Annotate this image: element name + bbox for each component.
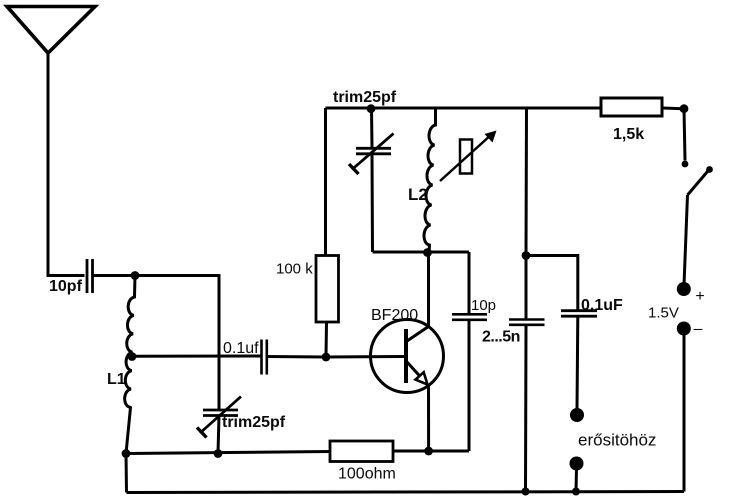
svg-text:0.1uF: 0.1uF: [581, 297, 623, 314]
wire 10p top lead: [468, 252, 471, 314]
inductor L2: [424, 108, 436, 253]
wire node A to trimmer branch: [135, 276, 219, 411]
transistor Q1 BF200 circle: [371, 320, 444, 393]
bottom-left junction: [122, 449, 131, 458]
output terminal 2: [570, 457, 584, 471]
node A junction: [131, 271, 140, 280]
wire output terminal 2 to rail: [575, 468, 579, 492]
antenna: [7, 7, 95, 54]
switch node dot: [680, 104, 689, 113]
emitter arrowhead: [416, 372, 428, 384]
switch lever: [688, 172, 708, 196]
svg-text:L1: L1: [107, 371, 126, 388]
transistor base bar: [404, 329, 408, 383]
wire lever to battery plus: [684, 195, 688, 285]
svg-text:–: –: [694, 321, 703, 338]
wire 0.1uf to base node: [267, 355, 326, 359]
wire bottom-left node down to ground rail: [125, 454, 129, 493]
L2 tuning arrow: [440, 131, 497, 182]
svg-text:trim25pf: trim25pf: [333, 89, 397, 106]
svg-text:10p: 10p: [471, 297, 496, 314]
inductor L1: [125, 276, 135, 454]
svg-text:0.1uf: 0.1uf: [223, 340, 259, 357]
wire emitter down: [427, 385, 430, 451]
wire 100k top to rail: [324, 108, 327, 256]
capacitor 0.1uF: [561, 311, 597, 317]
tank bottom wire: [373, 251, 470, 254]
wire 2...5n top lead: [525, 256, 528, 320]
wire 1,5k to switch node: [662, 107, 684, 111]
svg-text:erősitöhöz: erősitöhöz: [578, 431, 656, 450]
resistor 100ohm: [330, 441, 393, 462]
resistor 100k: [316, 256, 339, 323]
wire 100ohm to emitter node: [393, 450, 469, 453]
rail junction 2...5n: [522, 488, 530, 496]
trimmer bottom junction: [214, 449, 223, 458]
svg-text:1,5k: 1,5k: [613, 126, 644, 143]
junction x526: [522, 251, 531, 260]
battery plus terminal: [677, 282, 691, 296]
resistor 1,5k: [601, 98, 662, 116]
wire trimmer bottom lead: [218, 416, 219, 454]
wire 100k bottom to base node: [325, 322, 329, 357]
wire collector up to tank node: [427, 253, 430, 328]
wire 2...5n bottom lead to rail: [524, 325, 528, 492]
wire antenna down to 10pf: [48, 53, 85, 276]
wire L1 tap to 0.1uf: [132, 355, 261, 358]
rail junction trimmer top: [367, 104, 376, 113]
tank junction dot: [423, 248, 432, 257]
wire junction to 0.1uF branch: [526, 256, 578, 311]
top rail wire: [326, 107, 602, 110]
capacitor 10pf: [87, 259, 93, 293]
output terminal 1: [570, 408, 584, 422]
rail junction output: [572, 488, 580, 496]
svg-text:trim25pf: trim25pf: [222, 414, 286, 431]
trimmer capacitor trim25pf (bottom): [197, 397, 241, 438]
capacitor 2...5n: [509, 320, 545, 325]
wire 10p bottom lead: [468, 320, 471, 451]
wire bottom-left node to 100ohm: [126, 452, 330, 454]
svg-text:100ohm: 100ohm: [338, 466, 396, 483]
switch lever tip dot: [706, 166, 713, 173]
wire 0.1uF to output terminal: [576, 316, 580, 410]
transistor collector stroke: [407, 327, 429, 342]
svg-text:100 k: 100 k: [276, 261, 313, 278]
emitter junction: [424, 447, 433, 456]
svg-text:BF200: BF200: [371, 307, 418, 324]
svg-text:10pf: 10pf: [49, 278, 83, 295]
wire switch feed: [684, 109, 685, 161]
svg-text:L2: L2: [408, 185, 428, 204]
svg-text:2...5n: 2...5n: [482, 329, 520, 346]
battery minus terminal: [677, 322, 691, 336]
wire base node to transistor base: [326, 355, 404, 359]
ground rail: [127, 492, 685, 493]
svg-text:+: +: [695, 288, 704, 305]
svg-text:1.5V: 1.5V: [648, 305, 679, 322]
base node junction: [322, 353, 331, 362]
capacitor 10p: [452, 314, 487, 320]
wire battery minus to rail: [683, 333, 686, 492]
capacitor 0.1uf: [262, 340, 267, 375]
wire rail down at x526: [525, 108, 529, 256]
switch fixed contact: [682, 161, 689, 168]
wire 10pf to node A: [93, 274, 136, 277]
transistor emitter stroke: [407, 362, 427, 384]
L2 tuning core box: [460, 140, 472, 174]
trimmer capacitor trim25pf (top): [349, 109, 394, 252]
L1 tap junction: [128, 352, 137, 361]
